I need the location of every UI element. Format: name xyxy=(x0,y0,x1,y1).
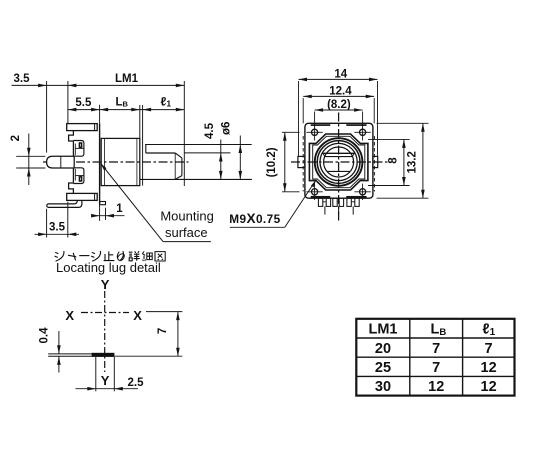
front centerline horizontal xyxy=(291,161,390,163)
dim LB arrows xyxy=(100,108,109,112)
ext x46.6 bottom xyxy=(46,209,48,238)
ext line x46.6 xyxy=(46,81,48,153)
terminal tab 1b xyxy=(326,198,330,206)
terminal lower contact xyxy=(79,177,81,181)
dim 1 line xyxy=(94,215,125,217)
ext 2.5 right xyxy=(113,357,115,391)
svg-text:X: X xyxy=(65,308,74,323)
bent lug strip xyxy=(47,200,82,207)
rivet TR xyxy=(360,129,366,135)
case left profile with notch tabs xyxy=(69,131,74,194)
chord end tick left xyxy=(323,153,325,156)
shaft end circle xyxy=(324,147,354,177)
svg-text:Locating lug detail: Locating lug detail xyxy=(56,260,161,275)
shaft end xyxy=(181,158,183,176)
svg-text:8: 8 xyxy=(387,157,399,164)
dim 14 line xyxy=(299,78,378,80)
dim 10.2 line xyxy=(284,132,286,192)
terminal bump lower inner line xyxy=(74,169,76,181)
body thick band bottom-right xyxy=(346,196,366,198)
bushing shading lines xyxy=(104,138,106,185)
shaft top full-dia line / ø6 ext xyxy=(145,144,252,146)
dim 2 line xyxy=(28,134,30,186)
svg-text:7: 7 xyxy=(157,328,169,334)
ext x67.8 bottom xyxy=(67,202,69,238)
ext line x139.8 xyxy=(139,105,141,138)
table row line 2 xyxy=(356,356,514,358)
ext 12.4 left xyxy=(302,98,304,123)
svg-text:Mounting: Mounting xyxy=(160,209,213,224)
terminal tab 3b xyxy=(355,198,359,206)
table column line 2 xyxy=(462,319,464,396)
table column line 1 xyxy=(409,319,411,396)
dim 10.2 text xyxy=(266,147,278,177)
svg-text:25: 25 xyxy=(375,360,391,376)
dim 8 text xyxy=(387,157,399,164)
rivet TL xyxy=(312,129,318,135)
svg-text:2.5: 2.5 xyxy=(128,377,145,389)
bushing circle M9 xyxy=(315,138,363,186)
terminal pin right xyxy=(352,206,354,214)
ext 7 bottom line xyxy=(114,355,182,357)
dim 0.4 line upper xyxy=(58,331,60,354)
svg-text:0.4: 0.4 xyxy=(39,327,51,344)
svg-text:14: 14 xyxy=(334,69,347,81)
dim 0.4 line lower xyxy=(58,356,60,372)
table row line 1 xyxy=(356,337,514,339)
terminal bump upper divider xyxy=(76,147,84,149)
locating lug side xyxy=(100,202,106,205)
japanese title shahshi-dome shousaizu xyxy=(55,251,64,261)
shaft step xyxy=(145,145,147,154)
svg-text:(10.2): (10.2) xyxy=(266,147,278,177)
shaft slot line xyxy=(327,170,350,172)
dim 8.2 arrows xyxy=(315,108,324,112)
terminal tab 2b xyxy=(339,198,343,206)
svg-text:12.4: 12.4 xyxy=(329,85,352,97)
ext 8 bottom xyxy=(368,185,410,187)
dim 3.5 bottom line xyxy=(35,233,80,235)
svg-text:12: 12 xyxy=(428,379,444,395)
dim l1 arrows xyxy=(143,108,152,112)
terminal bump lower xyxy=(74,168,84,184)
rivet BL xyxy=(312,189,318,195)
dim 7 text xyxy=(157,328,169,334)
dim 3.5 top arrows xyxy=(38,84,47,88)
dim 4.5 arrows xyxy=(219,153,223,162)
svg-text:LM1: LM1 xyxy=(369,322,398,338)
detail X-X line xyxy=(81,312,129,314)
dim 10.2 arrows xyxy=(283,132,287,141)
ext 14 right xyxy=(377,81,379,156)
hidden dash line right xyxy=(373,136,375,191)
body thick band bottom-left xyxy=(311,196,330,198)
svg-text:7: 7 xyxy=(432,360,440,376)
terminal link 3 xyxy=(351,201,355,203)
ext 4.5 top xyxy=(185,152,231,154)
dim 8 arrows xyxy=(402,139,406,148)
terminal pin left xyxy=(324,206,326,214)
table outer border xyxy=(356,319,514,396)
hidden dash line left xyxy=(302,136,304,191)
dim 8.2 line xyxy=(315,109,363,111)
svg-text:Y: Y xyxy=(101,277,110,292)
front centerline vertical xyxy=(338,113,340,223)
ext 8 top xyxy=(368,138,410,140)
ext line x142.6 xyxy=(142,105,144,186)
ext 7 top xyxy=(146,311,182,313)
svg-text:1: 1 xyxy=(116,203,123,215)
dim 12.4 line xyxy=(303,95,374,97)
terminal tab 2a xyxy=(333,198,337,206)
ext 2.5 left xyxy=(95,357,97,391)
dim line 3.5/LM1 top xyxy=(12,84,185,86)
ext 10.2 top xyxy=(282,131,300,133)
ext 10.2 bottom xyxy=(282,191,300,193)
front frame outer contour xyxy=(309,134,368,190)
shaft bottom line / ext xyxy=(140,178,252,180)
ext line x105.5 xyxy=(105,208,107,220)
right side tab xyxy=(373,156,378,167)
dim 13.2 arrows xyxy=(421,123,425,132)
side view centerline xyxy=(43,161,189,163)
svg-text:Y: Y xyxy=(101,373,110,388)
body thick band top-right xyxy=(346,124,366,126)
ext line x67.9 xyxy=(67,81,69,123)
dim LM1 right arrow xyxy=(176,84,185,88)
shaft tangent line xyxy=(174,153,176,179)
dim 12.4 arrows xyxy=(303,95,312,99)
dim 2 text xyxy=(10,135,22,141)
bushing xyxy=(101,138,140,185)
front body outline xyxy=(305,123,373,198)
svg-text:5.5: 5.5 xyxy=(75,97,92,109)
dim 2 arrows xyxy=(27,148,31,157)
ext 13.2 bottom xyxy=(377,197,429,199)
terminal bump upper xyxy=(74,141,84,157)
svg-text:20: 20 xyxy=(375,341,391,357)
terminal tab 3a xyxy=(347,198,351,206)
leader M9 xyxy=(230,226,285,228)
rivet BR xyxy=(360,189,366,195)
shaft circle xyxy=(320,143,357,180)
svg-text:surface: surface xyxy=(165,225,208,240)
svg-text:4.5: 4.5 xyxy=(204,122,216,139)
leader mounting surface xyxy=(101,163,163,241)
dim 7 line xyxy=(177,312,179,357)
svg-text:13.2: 13.2 xyxy=(407,151,419,173)
dim 5.5 arrows xyxy=(68,108,77,112)
terminal link 1 xyxy=(323,201,326,203)
bottom mounting bar xyxy=(67,193,98,200)
detail vertical centerline xyxy=(104,291,106,372)
shaft flat top xyxy=(146,152,175,154)
terminal bump upper inner line xyxy=(74,144,76,156)
terminal upper contact xyxy=(79,143,81,147)
dim 14 arrows xyxy=(299,78,308,82)
shaft chamfer top xyxy=(175,153,182,158)
svg-text:X: X xyxy=(133,308,142,323)
svg-text:3.5: 3.5 xyxy=(14,73,31,85)
dim 4.5 line xyxy=(220,140,222,180)
terminal pin center xyxy=(338,206,340,214)
dim ø6 text xyxy=(220,122,232,135)
peg tick xyxy=(60,156,62,168)
thread relief circle xyxy=(317,141,360,184)
svg-text:(8.2): (8.2) xyxy=(327,99,351,111)
body thick band top-left xyxy=(311,124,330,126)
svg-text:30: 30 xyxy=(375,379,391,395)
top bar tick xyxy=(94,124,96,131)
bottom bar tick xyxy=(94,193,96,200)
dim 7 arrows xyxy=(176,312,180,321)
locating lug bar xyxy=(92,353,115,357)
svg-text:12: 12 xyxy=(481,360,497,376)
svg-text:ø6: ø6 xyxy=(220,122,232,135)
table row line 3 xyxy=(356,375,514,377)
ext 13.2 top xyxy=(377,122,429,124)
terminal link 2 xyxy=(337,201,339,203)
dim 3.5 bottom arrows xyxy=(38,233,47,237)
chassis plate top line xyxy=(48,353,91,355)
ext 14 left xyxy=(298,81,300,156)
mounting surface line xyxy=(99,105,101,124)
shaft flat chord xyxy=(323,152,355,154)
ext 12.4 right xyxy=(373,98,375,123)
svg-text:3.5: 3.5 xyxy=(49,222,66,234)
dim line 5.5/LB/l1 xyxy=(68,109,184,111)
dim 2.5 arrows xyxy=(87,387,96,391)
svg-text:M9X0.75: M9X0.75 xyxy=(229,211,280,226)
dim 2 ext lines xyxy=(16,155,45,157)
top mounting bar xyxy=(67,124,98,131)
terminal bump lower divider xyxy=(76,175,84,177)
terminal tab 1a xyxy=(318,198,322,206)
dim 2.5 line xyxy=(76,388,139,390)
dim ø6 arrows xyxy=(239,145,243,154)
dim 4.5 text xyxy=(204,122,216,139)
dim 13.2 text xyxy=(407,151,419,173)
ext 8.2 left xyxy=(314,112,316,127)
dim 0.4 text xyxy=(39,327,51,344)
ext line x184.3 xyxy=(183,81,185,186)
svg-text:2: 2 xyxy=(10,135,22,141)
svg-text:12: 12 xyxy=(481,379,497,395)
shaft chamfer bottom xyxy=(175,176,182,180)
ext 8.2 right xyxy=(362,112,364,127)
svg-text:7: 7 xyxy=(432,341,440,357)
shaft flat chord inner xyxy=(325,156,353,158)
front frame inner contour xyxy=(313,136,365,187)
dim 8 line xyxy=(403,139,405,185)
dim 13.2 line xyxy=(422,123,424,198)
left side tab xyxy=(298,156,305,167)
shaft peg capsule xyxy=(47,156,75,168)
dim 1 arrows xyxy=(91,214,100,218)
dim ø6 line xyxy=(239,136,241,180)
chord end tick right xyxy=(352,153,354,156)
svg-text:LM1: LM1 xyxy=(115,73,139,85)
svg-text:7: 7 xyxy=(485,341,493,357)
chassis plate bottom line xyxy=(48,355,91,357)
